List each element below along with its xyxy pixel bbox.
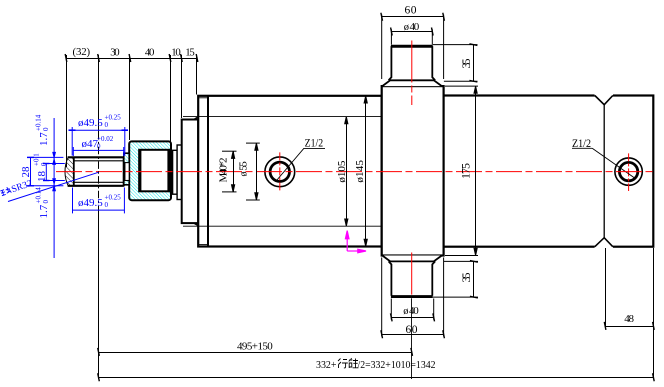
left port leader xyxy=(277,148,326,180)
left port red crosshair xyxy=(279,152,281,191)
SR32 leader xyxy=(8,172,98,201)
extension: rod tip xyxy=(66,55,68,167)
svg-text:1.7: 1.7 xyxy=(38,132,50,146)
18 dim line xyxy=(45,164,47,181)
right port red crosshair xyxy=(628,153,630,191)
svg-text:0: 0 xyxy=(105,121,109,129)
cover chamfer bottom xyxy=(199,244,207,246)
svg-text:10: 10 xyxy=(171,47,181,59)
1.7 witness vertical xyxy=(53,118,55,258)
extension: nut back xyxy=(170,55,172,144)
1342 dim xyxy=(99,377,654,379)
rod sphere face line xyxy=(73,157,75,187)
rod end face xyxy=(123,157,125,187)
rod sphere section hatch xyxy=(65,158,73,186)
svg-text:0: 0 xyxy=(40,162,48,166)
o49.5 top dim line xyxy=(72,129,125,131)
svg-text:40: 40 xyxy=(409,305,419,317)
svg-text:Z1/2: Z1/2 xyxy=(305,136,324,150)
right port leader xyxy=(572,148,636,179)
cover chamfer top xyxy=(199,97,207,99)
rod thread crest bottom xyxy=(68,185,124,187)
o49.5 bottom dim line xyxy=(73,209,125,211)
bottom trunnion pipe xyxy=(389,261,436,295)
o40 bottom dim xyxy=(391,317,433,319)
top trunnion red axis xyxy=(411,41,413,106)
svg-text:ø49.5: ø49.5 xyxy=(78,117,103,129)
60 bottom dim xyxy=(382,334,444,336)
svg-text:0: 0 xyxy=(42,127,50,131)
body front cover joint line xyxy=(207,97,209,246)
gland nose chamfer bottom xyxy=(194,223,198,226)
svg-text:18: 18 xyxy=(36,171,48,183)
bore line o105 top xyxy=(183,116,381,118)
svg-text:55: 55 xyxy=(237,161,249,171)
60 top dim xyxy=(382,16,444,18)
bore line o105 bottom xyxy=(183,225,381,227)
1.7 arrowheads xyxy=(53,152,56,157)
cylinder body (left, o145) xyxy=(198,96,382,247)
svg-text:1.7: 1.7 xyxy=(38,204,50,218)
top port face xyxy=(391,45,433,48)
o40 top dim xyxy=(391,31,432,33)
M40*2 dim line xyxy=(233,151,235,192)
top dim row ticks xyxy=(65,54,198,62)
o55 dim line xyxy=(256,143,258,200)
svg-text:0: 0 xyxy=(42,200,50,204)
rod thread root bottom xyxy=(74,181,124,183)
weld V-notch top xyxy=(594,93,613,105)
svg-text:ø105: ø105 xyxy=(336,160,348,183)
left port circle inner thread xyxy=(270,162,289,181)
28 dim line xyxy=(30,157,32,186)
svg-text:175: 175 xyxy=(459,163,473,179)
right port circle outer xyxy=(615,158,642,185)
nut collar left xyxy=(124,153,129,185)
extension: sphere center / overall datum xyxy=(98,55,100,132)
right body tube and cap xyxy=(382,96,654,247)
svg-text:35: 35 xyxy=(459,59,473,69)
svg-text:ø49.5: ø49.5 xyxy=(78,197,103,209)
svg-text:ø: ø xyxy=(403,306,408,317)
svg-text:35: 35 xyxy=(459,273,473,283)
seal ring A xyxy=(173,150,178,194)
right port circle inner thread xyxy=(619,162,637,180)
svg-text:Z1/2: Z1/2 xyxy=(572,136,591,150)
extension: body face xyxy=(196,55,198,95)
svg-text:15: 15 xyxy=(185,47,195,59)
seal ring B xyxy=(177,145,182,200)
svg-text:ø: ø xyxy=(404,22,409,33)
weld V-notch bottom xyxy=(594,238,613,250)
dim text 332+stroke/2=332+1010=1342 xyxy=(316,359,436,371)
gland block xyxy=(182,120,199,224)
main horizontal red center line xyxy=(56,171,653,173)
bottom port face xyxy=(391,295,433,298)
bottom trunnion red axis xyxy=(411,253,413,295)
svg-text:(32): (32) xyxy=(73,46,91,58)
blue texts xyxy=(20,114,121,219)
extension: nut face xyxy=(129,55,131,140)
rod thread crest top xyxy=(68,156,124,158)
svg-text:60: 60 xyxy=(405,4,417,16)
nut window left thick wall xyxy=(138,149,141,192)
48 dim xyxy=(605,326,653,328)
nut window xyxy=(139,150,169,192)
magenta UCS icon xyxy=(345,231,366,253)
nut window right thick wall xyxy=(167,149,169,192)
svg-text:ø: ø xyxy=(238,172,249,177)
svg-text:ø47: ø47 xyxy=(82,138,99,150)
35 bottom dim xyxy=(473,261,475,297)
gland nose chamfer top xyxy=(194,117,198,120)
35 top dim xyxy=(473,45,475,82)
svg-text:ø145: ø145 xyxy=(354,160,366,183)
extension: gland front xyxy=(181,55,183,118)
trunnion boss ring o175 xyxy=(382,86,444,255)
svg-text:30: 30 xyxy=(110,47,120,59)
175 dim xyxy=(475,86,477,255)
nut collar bore slot xyxy=(125,163,129,181)
18 extension lines xyxy=(45,163,65,165)
svg-text:40: 40 xyxy=(410,21,420,33)
o47 dim line xyxy=(73,149,123,151)
piston rod sphere arc SR32 xyxy=(65,158,68,186)
svg-text:0: 0 xyxy=(105,201,109,209)
svg-text:40: 40 xyxy=(145,47,155,59)
rod thread root top xyxy=(74,160,124,162)
text qiu SR32 xyxy=(0,179,34,199)
svg-text:M40*2: M40*2 xyxy=(217,158,229,183)
svg-text:28: 28 xyxy=(20,166,32,178)
o145 dim line xyxy=(365,96,367,247)
top trunnion pipe xyxy=(389,46,436,80)
svg-text:495+150: 495+150 xyxy=(237,341,273,353)
svg-text:60: 60 xyxy=(406,324,418,336)
svg-text:0: 0 xyxy=(97,143,101,151)
bottom trunnion plate xyxy=(382,256,442,262)
svg-text:48: 48 xyxy=(624,313,634,325)
weld joint line xyxy=(603,105,605,238)
top dim row line xyxy=(66,58,197,60)
svg-text:332+: 332+ xyxy=(316,359,337,371)
nut flange hatched block xyxy=(129,141,171,200)
28 extension lines xyxy=(29,156,64,158)
bottom trunnion center extension xyxy=(411,298,413,379)
hand-drawn glyph xing xyxy=(338,359,348,369)
left port circle outer xyxy=(265,157,295,187)
svg-text:/2=332+1010=1342: /2=332+1010=1342 xyxy=(358,359,436,371)
top trunnion plate xyxy=(382,80,442,86)
hand-drawn glyph cheng xyxy=(349,358,359,368)
o105 dim line xyxy=(346,117,348,227)
495+150 dim xyxy=(99,352,412,354)
